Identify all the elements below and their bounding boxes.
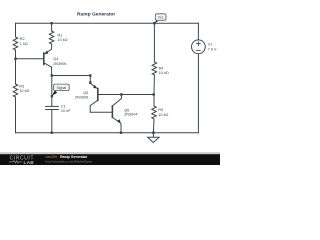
ground: [148, 133, 160, 143]
wire R5 to bottom rail: [152, 119, 155, 133]
svg-text:davidfrr : Ramp Generator: davidfrr : Ramp Generator: [46, 155, 89, 159]
svg-text:7.9 V: 7.9 V: [208, 48, 217, 52]
transistor Q5 (PNP 2N3906): [90, 83, 98, 105]
wire left vertical (Vcc side, R2/R3 column): [15, 23, 17, 37]
footer CircuitLab logo: [9, 156, 34, 166]
flag Vcc: [155, 14, 167, 23]
svg-text:10 kΩ: 10 kΩ: [158, 113, 168, 117]
wire C1 branch: [51, 76, 53, 107]
svg-text:2N3904: 2N3904: [124, 112, 137, 116]
resistor R2: [13, 37, 17, 50]
transistor Q6 (NPN 2N3904): [112, 99, 121, 124]
svg-text:R4: R4: [159, 66, 164, 70]
svg-text:LAB: LAB: [24, 160, 35, 165]
svg-text:Vcc: Vcc: [158, 16, 164, 20]
wire V1 top: [197, 23, 199, 40]
svg-text:1 kΩ: 1 kΩ: [20, 42, 28, 46]
svg-text:2N3906: 2N3906: [53, 62, 66, 66]
wire V1 bottom: [197, 54, 199, 133]
wire bottom rail: [16, 132, 199, 134]
wire R1 to Q4 emitter: [51, 44, 53, 49]
svg-text:http://circuitlab.com/c/9j9sbh: http://circuitlab.com/c/9j9sbh62qwe: [46, 160, 93, 164]
svg-text:10 kΩ: 10 kΩ: [159, 71, 169, 75]
svg-text:R5: R5: [158, 108, 163, 112]
capacitor C1 plates: [46, 105, 59, 107]
Q6 emitter arrow: [117, 119, 121, 123]
wire R2 to node: [15, 50, 17, 84]
footer bar: [0, 152, 220, 154]
svg-text:R2: R2: [20, 37, 25, 41]
svg-text:Q5: Q5: [83, 91, 88, 95]
svg-text:10 nF: 10 nF: [61, 109, 71, 113]
wire R1 branch from top rail: [51, 23, 53, 31]
svg-text:2N3906: 2N3906: [75, 96, 88, 100]
resistor R4: [152, 62, 156, 75]
wire Q5 collector to Q6 base: [90, 106, 112, 113]
flag Signal: [52, 84, 69, 96]
wire R3 to bottom rail: [15, 97, 17, 133]
Q4 emitter arrow: [45, 51, 49, 55]
svg-text:R3: R3: [19, 84, 24, 88]
svg-text:10 kΩ: 10 kΩ: [19, 89, 29, 93]
resistor R1: [49, 31, 53, 44]
svg-text:V1: V1: [208, 43, 213, 47]
svg-text:10 kΩ: 10 kΩ: [58, 38, 68, 42]
wire Vcc/R4 branch: [153, 23, 155, 62]
wire top rail: [16, 22, 199, 24]
resistor R3: [13, 84, 17, 97]
svg-text:Signal: Signal: [57, 86, 67, 90]
svg-text:Ramp Generator: Ramp Generator: [77, 11, 115, 17]
node junction dots: [14, 22, 155, 134]
wire R4 to node: [153, 75, 155, 106]
wire base of Q4: [16, 58, 44, 60]
voltage source V1: [192, 40, 206, 54]
wire Q6 emitter to bottom rail: [120, 124, 122, 133]
wire Q5 base lead to R4/R5 node: [98, 94, 154, 96]
wire C1 to bottom rail: [51, 110, 53, 133]
svg-text:Q4: Q4: [53, 57, 58, 61]
wire Q6 collector up to base lead: [120, 95, 122, 99]
svg-text:R1: R1: [58, 33, 63, 37]
resistor R5: [152, 106, 156, 119]
wire Q4 collector down: [51, 67, 53, 75]
transistor Q4 (PNP 2N3906): [44, 49, 52, 67]
wire mid rail to Q5 emitter: [52, 76, 91, 84]
Q5 emitter arrow: [93, 85, 97, 89]
